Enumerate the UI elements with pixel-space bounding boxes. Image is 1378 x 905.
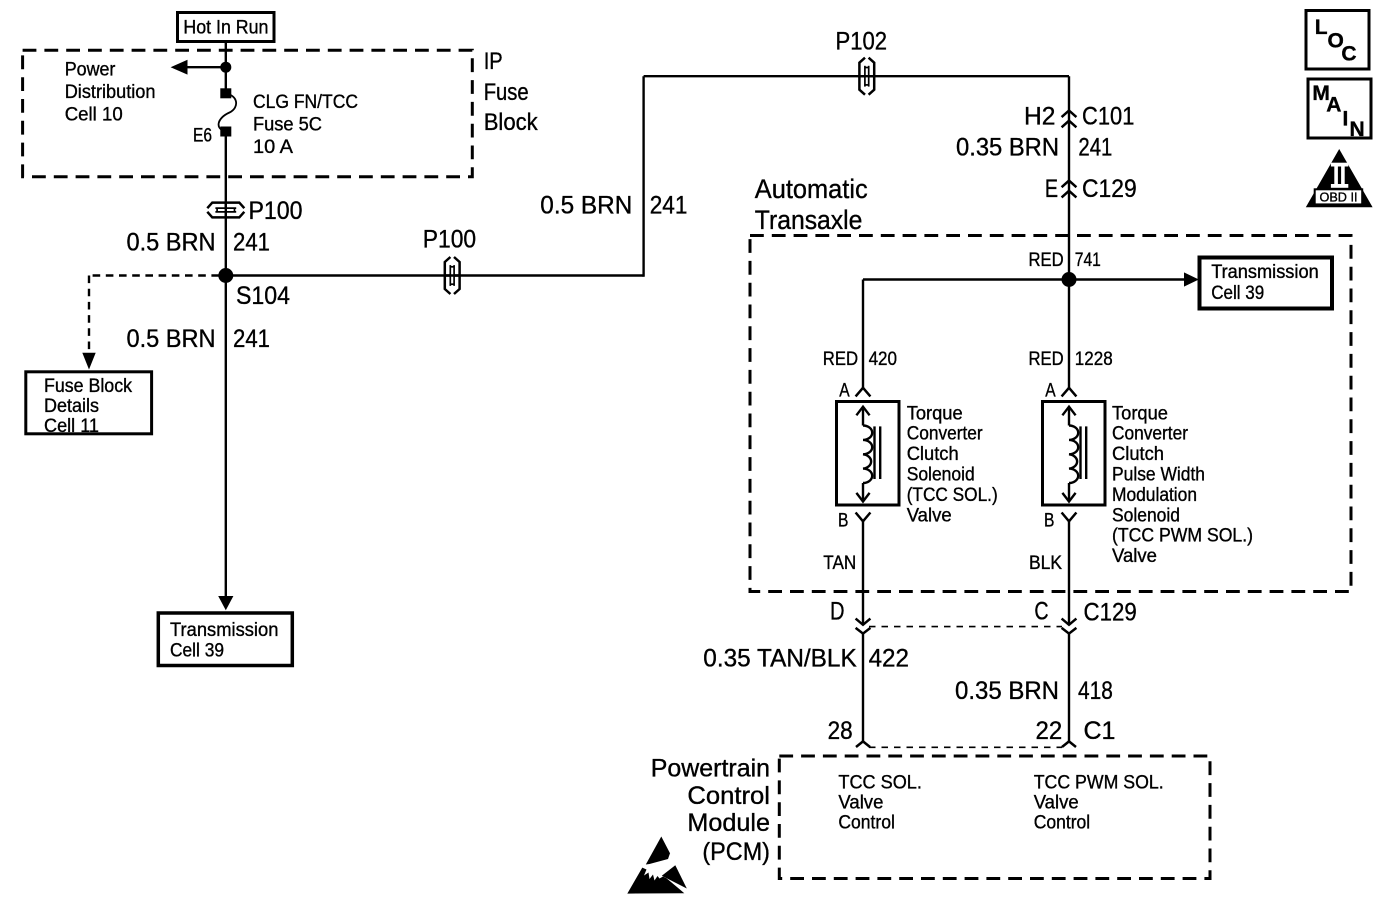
svg-text:1228: 1228: [1075, 349, 1113, 370]
svg-text:(TCC SOL.): (TCC SOL.): [907, 485, 998, 506]
svg-text:Details: Details: [44, 396, 99, 417]
svg-text:Valve: Valve: [907, 505, 952, 526]
svg-text:Modulation: Modulation: [1112, 485, 1197, 506]
svg-text:Cell 39: Cell 39: [170, 640, 224, 661]
svg-text:741: 741: [1075, 250, 1101, 271]
svg-text:Clutch: Clutch: [1112, 444, 1164, 465]
svg-text:RED: RED: [1029, 349, 1064, 370]
svg-text:Transaxle: Transaxle: [755, 205, 863, 235]
svg-text:420: 420: [869, 349, 897, 370]
svg-text:Valve: Valve: [1034, 792, 1079, 813]
svg-text:Control: Control: [687, 782, 770, 810]
svg-text:28: 28: [828, 717, 853, 745]
svg-text:Control: Control: [1034, 812, 1091, 833]
svg-text:Hot In Run: Hot In Run: [183, 18, 268, 39]
svg-text:Torque: Torque: [907, 403, 963, 424]
svg-text:Pulse Width: Pulse Width: [1112, 465, 1205, 486]
svg-text:C: C: [1034, 597, 1048, 625]
svg-text:0.35 BRN: 0.35 BRN: [956, 134, 1059, 162]
svg-text:TAN: TAN: [823, 553, 856, 574]
svg-text:RED: RED: [823, 349, 858, 370]
svg-text:241: 241: [233, 325, 270, 353]
svg-text:Fuse Block: Fuse Block: [44, 376, 132, 397]
svg-text:Distribution: Distribution: [65, 82, 156, 103]
svg-text:B: B: [1044, 511, 1054, 532]
svg-text:Solenoid: Solenoid: [1112, 505, 1180, 526]
svg-text:BLK: BLK: [1029, 553, 1062, 574]
svg-text:Power: Power: [65, 59, 116, 80]
svg-text:B: B: [838, 511, 848, 532]
svg-text:P100: P100: [249, 197, 303, 225]
svg-text:Automatic: Automatic: [755, 174, 868, 204]
svg-text:Torque: Torque: [1112, 403, 1168, 424]
svg-text:0.5 BRN: 0.5 BRN: [540, 192, 632, 220]
svg-text:TCC SOL.: TCC SOL.: [838, 772, 922, 793]
svg-text:241: 241: [1078, 134, 1112, 162]
svg-text:Converter: Converter: [907, 424, 984, 445]
svg-text:Block: Block: [484, 109, 539, 136]
svg-text:A: A: [839, 381, 850, 402]
svg-text:0.35 TAN/BLK: 0.35 TAN/BLK: [703, 644, 857, 672]
svg-text:E6: E6: [193, 126, 212, 147]
svg-text:Solenoid: Solenoid: [907, 465, 975, 486]
svg-text:D: D: [830, 597, 845, 625]
svg-text:418: 418: [1078, 677, 1113, 705]
svg-text:N: N: [1350, 118, 1365, 141]
svg-text:CLG FN/TCC: CLG FN/TCC: [253, 92, 358, 113]
svg-text:Fuse: Fuse: [484, 79, 529, 106]
svg-text:Fuse 5C: Fuse 5C: [253, 115, 322, 136]
svg-text:L: L: [1315, 16, 1328, 39]
svg-text:Valve: Valve: [1112, 546, 1157, 567]
svg-text:S104: S104: [236, 282, 290, 310]
svg-text:H2: H2: [1024, 103, 1055, 131]
svg-text:Transmission: Transmission: [1211, 262, 1319, 283]
svg-text:(TCC PWM SOL.): (TCC PWM SOL.): [1112, 526, 1253, 547]
svg-text:TCC PWM SOL.: TCC PWM SOL.: [1034, 772, 1164, 793]
svg-text:IP: IP: [484, 48, 503, 75]
svg-text:Transmission: Transmission: [170, 620, 278, 641]
svg-text:P102: P102: [836, 27, 888, 55]
svg-text:A: A: [1326, 94, 1341, 117]
svg-text:0.35 BRN: 0.35 BRN: [955, 677, 1059, 705]
svg-text:Cell 39: Cell 39: [1211, 283, 1264, 304]
svg-text:C: C: [1341, 43, 1356, 66]
svg-text:10 A: 10 A: [253, 137, 293, 158]
svg-text:A: A: [1045, 381, 1056, 402]
svg-text:0.5 BRN: 0.5 BRN: [127, 325, 216, 353]
svg-text:Clutch: Clutch: [907, 444, 959, 465]
svg-text:22: 22: [1036, 717, 1063, 745]
svg-text:I: I: [1343, 108, 1349, 131]
svg-text:RED: RED: [1029, 250, 1064, 271]
svg-text:Control: Control: [838, 812, 895, 833]
svg-text:C129: C129: [1084, 599, 1137, 627]
svg-text:Cell 11: Cell 11: [44, 416, 99, 437]
svg-text:241: 241: [233, 228, 270, 256]
svg-text:Powertrain: Powertrain: [651, 755, 770, 783]
svg-text:OBD II: OBD II: [1320, 191, 1358, 205]
svg-text:(PCM): (PCM): [702, 838, 770, 866]
svg-text:C1: C1: [1084, 717, 1116, 745]
svg-text:Cell 10: Cell 10: [65, 104, 123, 125]
svg-text:C129: C129: [1082, 175, 1137, 203]
svg-text:E: E: [1045, 175, 1058, 203]
svg-text:0.5 BRN: 0.5 BRN: [127, 228, 216, 256]
svg-text:Converter: Converter: [1112, 424, 1189, 445]
svg-text:Module: Module: [687, 809, 770, 837]
svg-text:241: 241: [650, 192, 688, 220]
svg-text:C101: C101: [1082, 103, 1134, 131]
svg-text:P100: P100: [423, 226, 476, 254]
svg-text:422: 422: [869, 644, 909, 672]
svg-text:Valve: Valve: [838, 792, 883, 813]
